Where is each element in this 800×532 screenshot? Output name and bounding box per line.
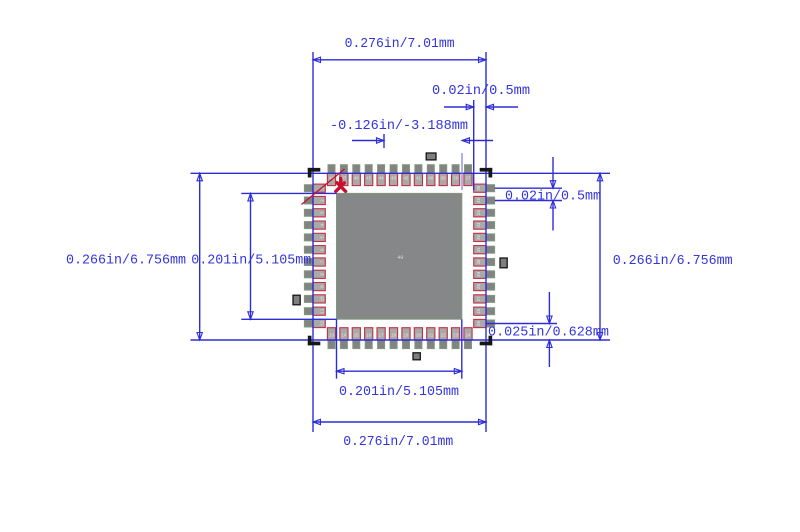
svg-text:11: 11 bbox=[322, 308, 326, 314]
svg-text:28: 28 bbox=[478, 284, 482, 290]
pad pin 43 (top row) bbox=[389, 165, 397, 186]
svg-text:0.201in/5.105mm: 0.201in/5.105mm bbox=[339, 385, 459, 400]
pad pin 48 (top row) bbox=[327, 165, 335, 186]
svg-text:17: 17 bbox=[379, 335, 385, 339]
pad pin 29 (right column) bbox=[474, 270, 495, 278]
marker square (left) bbox=[293, 295, 300, 305]
pad pin 19 (bottom row) bbox=[402, 328, 410, 349]
svg-text:21: 21 bbox=[428, 335, 434, 339]
pad pin 20 (bottom row) bbox=[414, 328, 422, 349]
dimension arrows -0.126in/-3.188mm bbox=[352, 138, 493, 143]
svg-text:35: 35 bbox=[478, 198, 482, 204]
svg-text:37: 37 bbox=[465, 178, 471, 182]
dimension text left 0.201in/5.105mm bbox=[191, 254, 311, 269]
pin-1 marker X (red asterisk) bbox=[336, 178, 346, 191]
svg-text:0.02in/0.5mm: 0.02in/0.5mm bbox=[432, 84, 530, 99]
pad pin 41 (top row) bbox=[414, 165, 422, 186]
pad pin 42 (top row) bbox=[402, 165, 410, 186]
svg-text:29: 29 bbox=[478, 271, 482, 277]
dimension text bottom 0.276in/7.01mm bbox=[343, 435, 453, 450]
extension line body bottom edge (horizontal y=340) bbox=[191, 339, 611, 341]
exposed pad pin 49 (center thermal pad) bbox=[337, 193, 462, 319]
svg-text:26: 26 bbox=[478, 308, 482, 314]
dimension text left 0.266in/6.756mm bbox=[66, 254, 186, 269]
pad pin 30 (right column) bbox=[474, 258, 495, 266]
extension line right body edge (vertical x=486) bbox=[485, 52, 487, 432]
svg-text:12: 12 bbox=[322, 321, 326, 327]
extension line right pad1 center y=188.2 bbox=[495, 187, 562, 189]
pad pin 25 (right column) bbox=[474, 319, 495, 327]
pad pin 11 (left column) bbox=[304, 307, 325, 315]
dimension text top 0.276in/7.01mm bbox=[345, 37, 455, 52]
pad pin 14 (bottom row) bbox=[340, 328, 348, 349]
svg-text:0.266in/6.756mm: 0.266in/6.756mm bbox=[66, 254, 186, 269]
dimension line top 0.276in/7.01mm bbox=[313, 57, 486, 62]
svg-text:0.02in/0.5mm: 0.02in/0.5mm bbox=[505, 189, 601, 204]
extension line exposed-pad left edge (to bottom dim) bbox=[336, 319, 338, 378]
courtyard corner bracket top-left bbox=[308, 168, 321, 178]
svg-text:22: 22 bbox=[441, 335, 447, 339]
pad pin 44 (top row) bbox=[377, 165, 385, 186]
svg-text:0.025in/0.628mm: 0.025in/0.628mm bbox=[488, 325, 609, 340]
svg-text:44: 44 bbox=[379, 178, 385, 182]
svg-text:13: 13 bbox=[329, 335, 335, 339]
svg-text:27: 27 bbox=[478, 296, 482, 302]
svg-text:24: 24 bbox=[465, 335, 471, 339]
svg-text:46: 46 bbox=[354, 178, 360, 182]
marker square (top) bbox=[426, 153, 436, 160]
pad pin 24 (bottom row) bbox=[464, 328, 472, 349]
svg-text:43: 43 bbox=[391, 178, 397, 182]
extension line top pad inner edge x=473.7 bbox=[473, 100, 475, 190]
svg-text:30: 30 bbox=[478, 259, 482, 265]
svg-text:36: 36 bbox=[478, 185, 482, 191]
pad pin 9 (left column) bbox=[304, 283, 325, 291]
svg-text:34: 34 bbox=[478, 210, 482, 216]
marker square (bottom) bbox=[413, 353, 420, 360]
pad pin 33 (right column) bbox=[474, 221, 495, 229]
dimension text bottom 0.201in/5.105mm bbox=[339, 385, 459, 400]
dimension text right 0.02in/0.5mm pitch bbox=[505, 189, 601, 204]
svg-text:10: 10 bbox=[322, 296, 326, 302]
extension line exposed-pad bottom edge bbox=[241, 318, 336, 320]
pad pin 35 (right column) bbox=[474, 196, 495, 204]
svg-text:39: 39 bbox=[441, 178, 447, 182]
pad pin 10 (left column) bbox=[304, 295, 325, 303]
extension line body top edge (horizontal y=173.3) bbox=[191, 172, 611, 174]
dimension line left 0.266in/6.756mm bbox=[197, 173, 202, 340]
svg-text:16: 16 bbox=[366, 335, 372, 339]
pad pin 38 (top row) bbox=[452, 165, 460, 186]
svg-text:-0.126in/-3.188mm: -0.126in/-3.188mm bbox=[330, 119, 468, 134]
dimension text top-right 0.02in/0.5mm bbox=[432, 84, 530, 99]
pad pin 15 (bottom row) bbox=[352, 328, 360, 349]
svg-text:42: 42 bbox=[403, 178, 409, 182]
svg-text:18: 18 bbox=[391, 335, 397, 339]
courtyard corner bracket top-right bbox=[480, 168, 493, 178]
pad pin 18 (bottom row) bbox=[389, 328, 397, 349]
dimension arrows top 0.02in/0.5mm bbox=[444, 104, 518, 109]
extension line exposed-pad top edge bbox=[241, 192, 336, 194]
extension line left body edge (vertical x=313) bbox=[312, 52, 314, 432]
pad pin 28 (right column) bbox=[474, 283, 495, 291]
svg-text:25: 25 bbox=[478, 321, 482, 327]
pad pin 2 (left column) bbox=[304, 196, 325, 204]
svg-text:32: 32 bbox=[478, 234, 482, 240]
svg-text:14: 14 bbox=[341, 335, 347, 339]
extension line last right pad center y=323.5 bbox=[486, 323, 557, 325]
svg-text:31: 31 bbox=[478, 247, 482, 253]
dimension text -0.126in/-3.188mm bbox=[330, 119, 468, 134]
svg-text:38: 38 bbox=[453, 178, 459, 182]
pad pin 3 (left column) bbox=[304, 209, 325, 217]
pad pin 6 (left column) bbox=[304, 246, 325, 254]
svg-text:45: 45 bbox=[366, 178, 372, 182]
dimension text 0.025in/0.628mm bbox=[488, 325, 609, 340]
pad pin 37 (top row) bbox=[464, 165, 472, 186]
pad pin 27 (right column) bbox=[474, 295, 495, 303]
pad pin 8 (left column) bbox=[304, 270, 325, 278]
svg-text:33: 33 bbox=[478, 222, 482, 228]
pad pin 12 (left column) bbox=[304, 319, 325, 327]
dimension text right 0.266in/6.756mm bbox=[613, 254, 733, 269]
dimension line bottom 0.201in/5.105mm bbox=[337, 369, 462, 374]
pad pin 36 (right column) bbox=[474, 184, 495, 192]
pad pin 46 (top row) bbox=[352, 165, 360, 186]
svg-text:23: 23 bbox=[453, 335, 459, 339]
datum tick x=384 for -0.126in offset bbox=[383, 134, 385, 148]
svg-text:0.266in/6.756mm: 0.266in/6.756mm bbox=[613, 254, 733, 269]
svg-text:49: 49 bbox=[397, 255, 403, 261]
pad pin 4 (left column) bbox=[304, 221, 325, 229]
pad pin 13 (bottom row) bbox=[327, 328, 335, 349]
pad pin 32 (right column) bbox=[474, 233, 495, 241]
extension line exposed-pad right edge (up, x=462) bbox=[461, 153, 463, 190]
pin-1 indicator line (red diagonal) bbox=[302, 169, 345, 205]
svg-text:0.276in/7.01mm: 0.276in/7.01mm bbox=[345, 37, 455, 52]
dimension line left 0.201in/5.105mm bbox=[248, 193, 253, 319]
svg-text:40: 40 bbox=[428, 178, 434, 182]
svg-text:15: 15 bbox=[354, 335, 360, 339]
pad pin 34 (right column) bbox=[474, 209, 495, 217]
dimension arrows 0.025in/0.628mm bbox=[547, 292, 552, 367]
svg-text:0.201in/5.105mm: 0.201in/5.105mm bbox=[191, 254, 311, 269]
pad pin 22 (bottom row) bbox=[439, 328, 447, 349]
pad pin 21 (bottom row) bbox=[427, 328, 435, 349]
svg-text:20: 20 bbox=[416, 335, 422, 339]
dimension line right 0.266in/6.756mm bbox=[597, 173, 602, 340]
svg-text:41: 41 bbox=[416, 178, 422, 182]
pad pin 45 (top row) bbox=[365, 165, 373, 186]
extension line exposed-pad right edge (to bottom dim) bbox=[461, 319, 463, 378]
svg-text:0.276in/7.01mm: 0.276in/7.01mm bbox=[343, 435, 453, 450]
pad pin 7 (left column) bbox=[304, 258, 325, 266]
pad pin 47 (top row) bbox=[340, 165, 348, 186]
pad pin 17 (bottom row) bbox=[377, 328, 385, 349]
extension line right pad2 center y=200.5 bbox=[495, 200, 562, 202]
pad pin 31 (right column) bbox=[474, 246, 495, 254]
pad pin 23 (bottom row) bbox=[452, 328, 460, 349]
dimension arrows right 0.02in/0.5mm pitch bbox=[550, 157, 555, 231]
pad pin 16 (bottom row) bbox=[365, 328, 373, 349]
marker square (right) bbox=[500, 258, 507, 268]
courtyard corner bracket bottom-right bbox=[480, 336, 493, 346]
svg-text:19: 19 bbox=[403, 335, 409, 339]
pad pin 26 (right column) bbox=[474, 307, 495, 315]
pad pin 5 (left column) bbox=[304, 233, 325, 241]
courtyard corner bracket bottom-left bbox=[308, 336, 321, 346]
dimension line bottom 0.276in/7.01mm bbox=[313, 419, 486, 424]
pad pin 39 (top row) bbox=[439, 165, 447, 186]
pad pin 40 (top row) bbox=[427, 165, 435, 186]
pad pin 1 (left column) bbox=[304, 184, 325, 192]
